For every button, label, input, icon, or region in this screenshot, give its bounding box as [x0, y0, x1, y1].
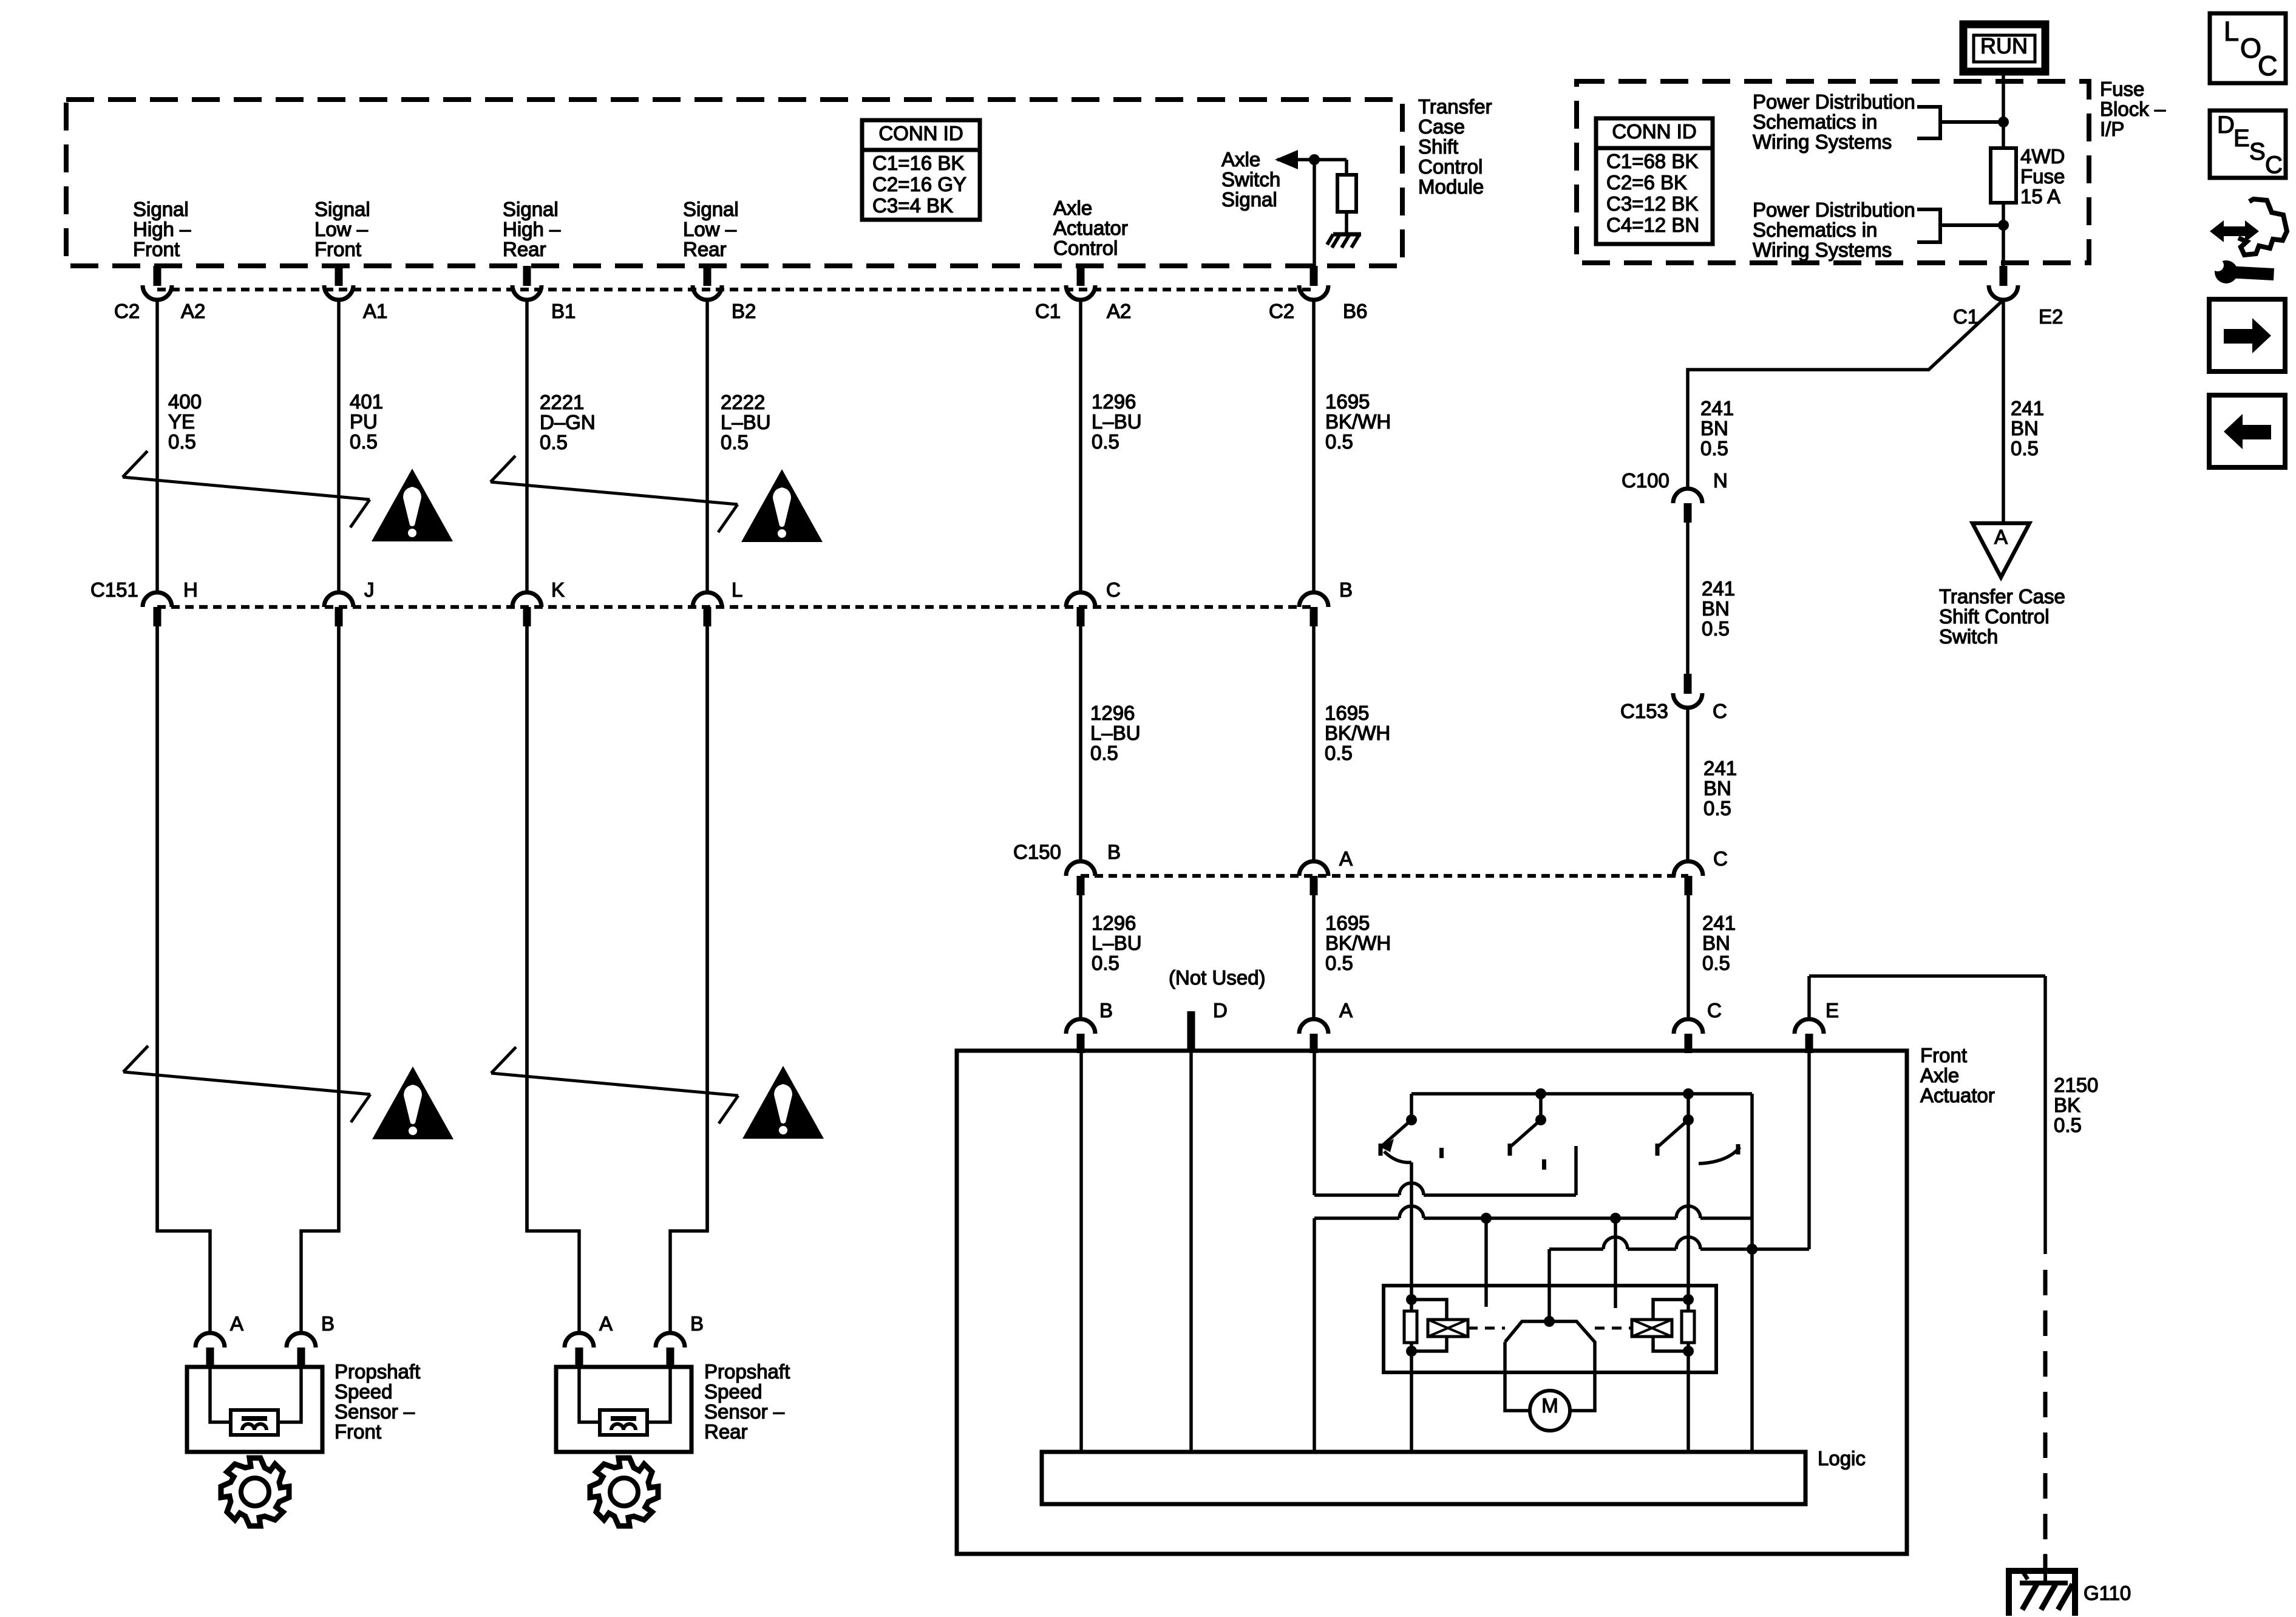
svg-text:S: S — [2249, 138, 2266, 165]
svg-text:L: L — [732, 578, 742, 601]
svg-text:Logic: Logic — [1818, 1447, 1866, 1470]
svg-text:A: A — [1339, 999, 1353, 1022]
svg-text:C153: C153 — [1620, 700, 1668, 722]
svg-text:A1: A1 — [363, 300, 387, 322]
svg-text:L: L — [2224, 16, 2239, 47]
svg-text:H: H — [183, 578, 198, 601]
svg-text:B2: B2 — [732, 300, 756, 322]
svg-text:B: B — [1339, 578, 1353, 601]
svg-text:CONN ID: CONN ID — [1612, 120, 1696, 143]
svg-text:C: C — [2258, 50, 2278, 81]
svg-text:A: A — [1339, 847, 1353, 870]
svg-text:C1=68 BKC2=6 BKC3=12 BKC4=12 B: C1=68 BKC2=6 BKC3=12 BKC4=12 BN — [1606, 150, 1699, 236]
svg-text:C2: C2 — [1269, 300, 1294, 322]
svg-text:C: C — [1707, 999, 1722, 1022]
svg-text:D: D — [2217, 112, 2235, 138]
svg-text:E: E — [2233, 125, 2250, 152]
svg-text:D: D — [1213, 999, 1228, 1022]
svg-text:C100: C100 — [1622, 469, 1669, 492]
svg-text:G110: G110 — [2084, 1582, 2131, 1604]
svg-text:B: B — [1099, 999, 1113, 1022]
svg-text:A: A — [230, 1312, 243, 1335]
svg-text:CONN ID: CONN ID — [878, 122, 963, 144]
svg-text:E: E — [1826, 999, 1839, 1022]
svg-text:C151: C151 — [90, 578, 138, 601]
svg-text:B6: B6 — [1343, 300, 1367, 322]
svg-text:K: K — [551, 578, 565, 601]
svg-text:C150: C150 — [1013, 841, 1061, 863]
svg-text:C: C — [1713, 847, 1728, 870]
svg-text:N: N — [1713, 469, 1728, 492]
svg-text:A2: A2 — [181, 300, 205, 322]
svg-text:RUN: RUN — [1980, 33, 2028, 58]
svg-text:C1=16 BKC2=16 GYC3=4 BK: C1=16 BKC2=16 GYC3=4 BK — [872, 152, 966, 217]
svg-text:J: J — [364, 578, 375, 601]
svg-text:C: C — [1713, 700, 1727, 722]
svg-text:A2: A2 — [1107, 300, 1131, 322]
svg-text:B: B — [690, 1312, 704, 1335]
svg-text:C: C — [2265, 152, 2283, 178]
svg-text:(Not Used): (Not Used) — [1169, 966, 1266, 989]
svg-text:B1: B1 — [551, 300, 576, 322]
svg-text:B: B — [321, 1312, 335, 1335]
svg-text:4WDFuse15 A: 4WDFuse15 A — [2020, 145, 2065, 208]
svg-text:A: A — [1994, 526, 2008, 548]
svg-text:C: C — [1106, 578, 1121, 601]
svg-text:A: A — [599, 1312, 613, 1335]
svg-text:M: M — [1541, 1394, 1558, 1417]
svg-text:C2: C2 — [114, 300, 140, 322]
svg-text:E2: E2 — [2039, 305, 2063, 328]
svg-text:C1: C1 — [1035, 300, 1061, 322]
svg-text:B: B — [1107, 841, 1121, 863]
